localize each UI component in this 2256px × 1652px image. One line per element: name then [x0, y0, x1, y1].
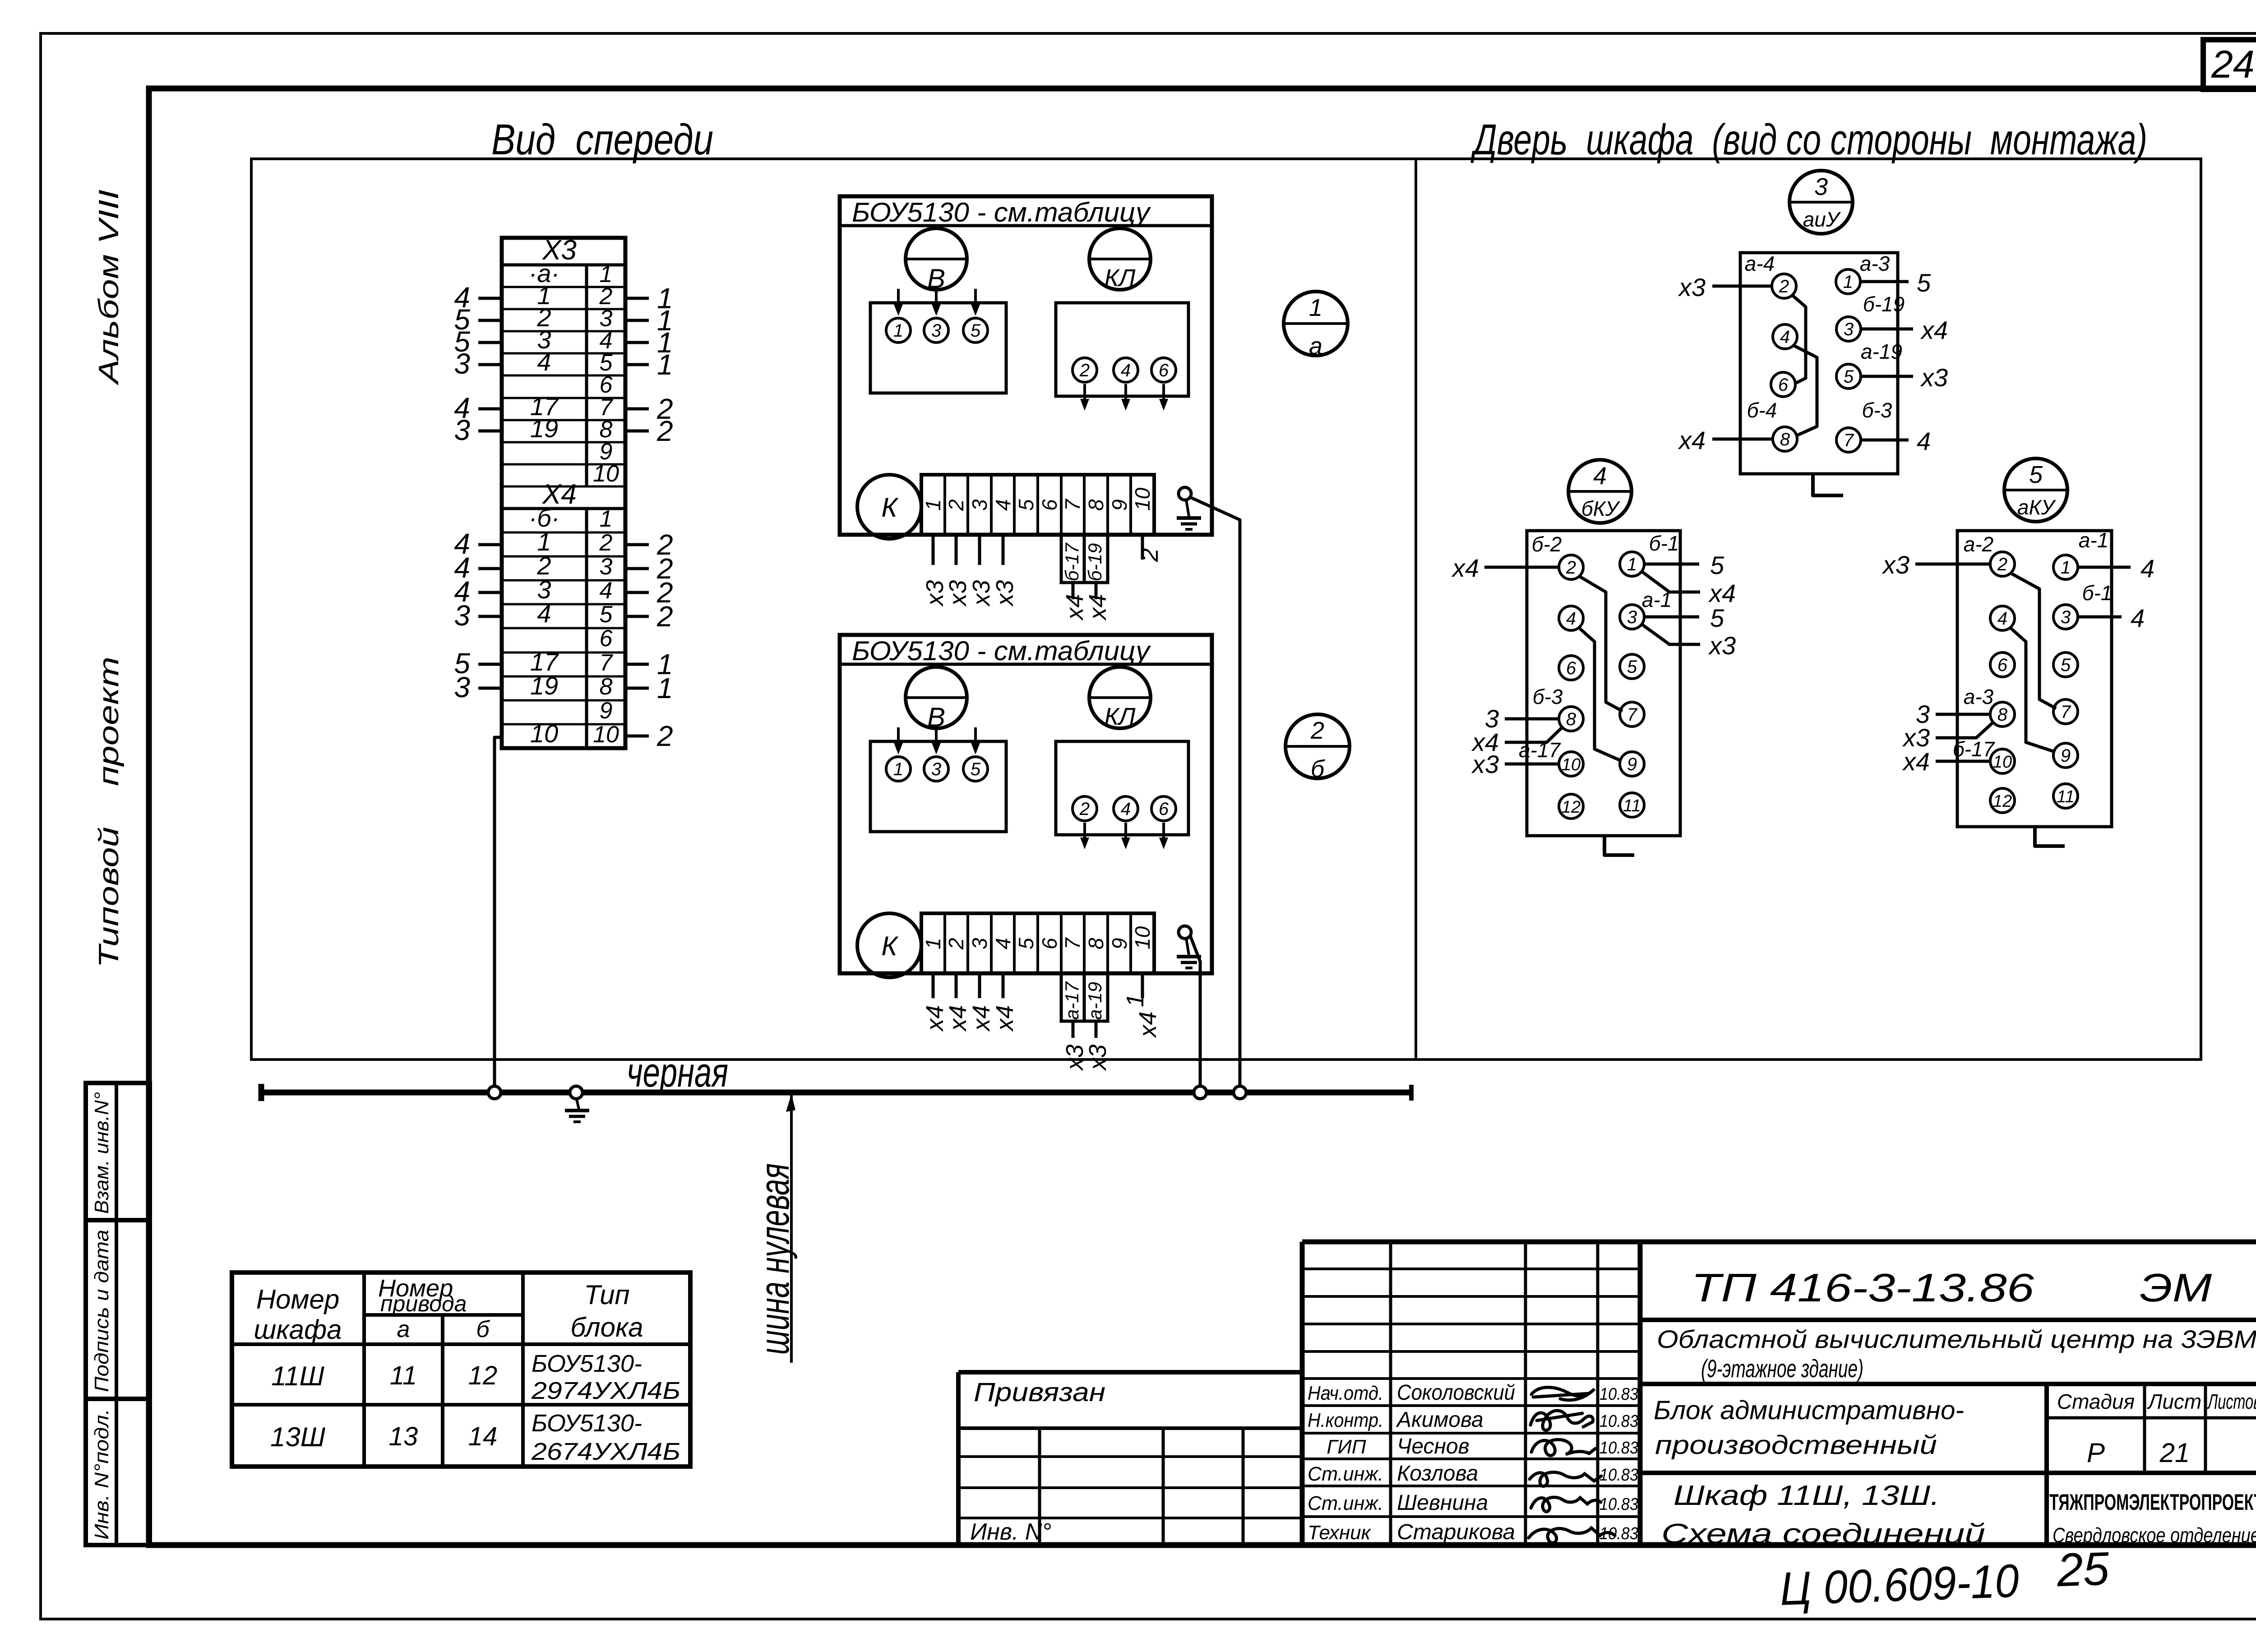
page number box 24 — [2203, 40, 2256, 89]
svg-text:1: 1 — [657, 672, 673, 704]
arrow out of box — [1159, 823, 1168, 849]
wire lead X3 row 2 to 5 — [454, 303, 502, 336]
svg-text:Р: Р — [2087, 1438, 2105, 1468]
svg-text:КЛ: КЛ — [1105, 264, 1136, 292]
svg-text:9: 9 — [1627, 754, 1637, 774]
sidebar box: Подпись и дата — [86, 1220, 150, 1399]
svg-text:19: 19 — [530, 414, 558, 443]
svg-text:24: 24 — [2211, 43, 2255, 86]
cabinet/drive/type table — [232, 1273, 690, 1467]
node designator 2/б — [1285, 714, 1350, 782]
signature row Ст.инж. Козлова — [1308, 1462, 1638, 1486]
arrow out of box — [1121, 823, 1130, 849]
pin 5 — [963, 757, 988, 781]
svg-text:21: 21 — [2159, 1438, 2190, 1468]
svg-text:2: 2 — [944, 938, 968, 950]
svg-text:Нач.отд.: Нач.отд. — [1308, 1382, 1383, 1404]
svg-text:3: 3 — [931, 321, 941, 341]
wire block3 pin 3 to х4 — [1861, 316, 1948, 344]
svg-text:5: 5 — [1014, 938, 1038, 949]
pin 2 — [1073, 796, 1097, 821]
svg-text:5: 5 — [971, 321, 981, 341]
svg-text:10: 10 — [1562, 755, 1581, 774]
block4 pin 6 — [1559, 656, 1583, 680]
svg-text:бКУ: бКУ — [1581, 497, 1621, 520]
node designator 1/а — [1284, 292, 1348, 360]
bus label черная — [627, 1050, 728, 1096]
wire block3 pin 7 to 4 — [1861, 427, 1931, 455]
svg-text:б-19: б-19 — [1084, 543, 1105, 581]
svg-text:блока: блока — [570, 1312, 643, 1342]
lamp terminal box 1-3-5 — [870, 741, 1006, 832]
wire lead X4 pin 7 to circuit 1 — [625, 648, 673, 680]
svg-text:б-17: б-17 — [1953, 737, 1995, 761]
block4 pin 7 — [1620, 702, 1644, 727]
stage/sheet header — [2057, 1390, 2256, 1413]
arrow into box — [894, 727, 903, 754]
block3 pin 7 — [1836, 428, 1861, 452]
svg-text:10: 10 — [593, 722, 619, 748]
wire terminal 1 to х4 — [921, 973, 948, 1032]
block3 pin 2 — [1772, 274, 1796, 298]
svg-text:4: 4 — [1917, 427, 1931, 455]
block3 pin 4 — [1773, 324, 1797, 349]
svg-text:2: 2 — [1566, 558, 1576, 578]
terminal strip 1..10 — [921, 475, 1154, 535]
object name Блок административно-производственный — [1654, 1396, 1964, 1460]
organisation ТЯЖПРОМЭЛЕКТРОПРОЕКТ — [2049, 1490, 2256, 1547]
indicator КЛ — [1089, 667, 1151, 730]
terminal 8 extension а-19 — [1084, 973, 1108, 1021]
svg-text:(9-этажное здание): (9-этажное здание) — [1701, 1354, 1863, 1383]
wire lead X3 pin 4 to circuit 1 — [625, 326, 673, 359]
arrow into box — [971, 289, 980, 316]
svg-text:шкафа: шкафа — [254, 1314, 342, 1345]
svg-text:а-3: а-3 — [1860, 252, 1890, 275]
svg-text:б-17: б-17 — [1061, 542, 1082, 581]
svg-text:1: 1 — [1627, 555, 1637, 574]
svg-text:Н.контр.: Н.контр. — [1308, 1409, 1383, 1431]
svg-text:2: 2 — [1997, 555, 2007, 574]
wire lead X4 pin 3 to circuit 2 — [625, 552, 673, 585]
label б-19 — [1863, 292, 1905, 316]
svg-text:б: б — [476, 1316, 490, 1342]
svg-text:7: 7 — [1844, 430, 1854, 450]
pin 3 — [924, 757, 948, 781]
wire terminal 4 to х4 — [991, 973, 1018, 1032]
svg-text:Номер: Номер — [256, 1284, 340, 1314]
block5 pin 1 — [2053, 555, 2078, 579]
svg-text:3: 3 — [454, 599, 470, 632]
label а-3 — [1860, 252, 1890, 275]
block3 pin 8 — [1773, 427, 1797, 451]
svg-text:Схема соединений: Схема соединений — [1661, 1518, 1985, 1550]
svg-text:10: 10 — [593, 461, 619, 487]
block4 chassis tail — [1604, 836, 1634, 855]
svg-text:7: 7 — [1061, 499, 1084, 511]
svg-text:Стадия: Стадия — [2057, 1390, 2135, 1413]
label б-3 — [1862, 398, 1892, 422]
svg-text:2674УХЛ4Б: 2674УХЛ4Б — [531, 1438, 680, 1465]
svg-text:13: 13 — [389, 1422, 418, 1451]
arrow out of box — [1080, 823, 1089, 849]
terminal 8 extension б-19 — [1084, 535, 1108, 583]
svg-text:Лист: Лист — [2147, 1390, 2201, 1413]
svg-text:6: 6 — [1159, 361, 1169, 380]
margin caption: Альбом VIII — [93, 190, 125, 386]
svg-text:5: 5 — [600, 602, 613, 628]
svg-text:2: 2 — [944, 499, 968, 511]
svg-text:а-3: а-3 — [1964, 685, 1994, 708]
wire 3 to block5 pin 8 — [1916, 700, 1990, 728]
wire lead X3 pin 3 to circuit 1 — [625, 304, 673, 337]
svg-text:11Ш: 11Ш — [271, 1361, 324, 1391]
svg-text:Инв. N°подл.: Инв. N°подл. — [91, 1409, 113, 1540]
svg-text:3: 3 — [454, 414, 470, 446]
svg-text:БОУ5130 - см.таблицу: БОУ5130 - см.таблицу — [852, 197, 1151, 227]
svg-text:Техник: Техник — [1308, 1522, 1372, 1544]
svg-text:х3: х3 — [968, 580, 995, 607]
wire terminal 2 to х4 — [944, 973, 971, 1032]
svg-text:х3: х3 — [1678, 273, 1706, 301]
label а-17 — [1519, 738, 1561, 762]
wire lead X3 row to 4 — [454, 281, 502, 314]
svg-text:12: 12 — [1562, 798, 1581, 817]
block5 pin 12 — [1990, 788, 2015, 813]
svg-text:25: 25 — [2056, 1542, 2111, 1596]
block4 pin 10 — [1559, 752, 1583, 776]
project name — [1657, 1325, 2256, 1383]
svg-text:х3: х3 — [1708, 631, 1736, 660]
bus ground symbol — [565, 1099, 589, 1122]
inventory handwritten mark — [1779, 1542, 2111, 1615]
unit title БОУ5130 - см.таблицу — [852, 636, 1151, 666]
svg-text:х4: х4 — [1920, 316, 1948, 344]
pin 1 — [886, 757, 911, 781]
svg-text:Акимова: Акимова — [1396, 1408, 1484, 1432]
svg-text:1: 1 — [2061, 558, 2071, 578]
svg-text:10: 10 — [1131, 487, 1154, 511]
svg-text:а-17: а-17 — [1061, 981, 1082, 1020]
svg-text:8: 8 — [1084, 499, 1108, 511]
svg-text:3: 3 — [454, 347, 470, 380]
svg-text:б: б — [1311, 755, 1325, 782]
wire lead X4 row 3 to 4 — [454, 575, 502, 608]
svg-text:Вид спереди: Вид спереди — [491, 116, 713, 164]
svg-text:а: а — [397, 1316, 410, 1342]
label а-1 — [2079, 528, 2108, 552]
wire ground terminal to zero bus — [1190, 936, 1200, 1090]
svg-text:4: 4 — [1566, 609, 1576, 629]
block5 pin 10 — [1990, 749, 2015, 773]
svg-text:2: 2 — [656, 600, 673, 633]
svg-text:Листов: Листов — [2207, 1390, 2256, 1413]
svg-text:БОУ5130-: БОУ5130- — [532, 1350, 642, 1377]
svg-text:Козлова: Козлова — [1397, 1462, 1478, 1485]
arrow out of box — [1159, 384, 1168, 411]
svg-text:4: 4 — [2140, 554, 2154, 583]
wire block3 pin 5 to х3 — [1861, 363, 1948, 392]
wire block4 pin 3 to 5 — [1644, 604, 1724, 632]
ground symbol — [1177, 939, 1201, 968]
svg-text:6: 6 — [1159, 799, 1169, 819]
svg-text:4: 4 — [1593, 463, 1607, 490]
svg-text:а-19: а-19 — [1861, 340, 1902, 363]
svg-text:х4: х4 — [991, 1005, 1018, 1032]
label а-3 — [1964, 685, 1994, 708]
connector block 4 (бКУ) outline — [1527, 531, 1680, 836]
label б-3 — [1533, 685, 1563, 708]
svg-text:привода: привода — [380, 1291, 467, 1316]
svg-text:19: 19 — [530, 671, 558, 700]
svg-text:х3: х3 — [1882, 551, 1909, 579]
svg-text:Областной вычислительный центр: Областной вычислительный центр на 3ЭВМ — [1657, 1325, 2256, 1353]
wire block3 pin 1 to 5 — [1860, 268, 1931, 297]
wire terminal 10 — [1136, 535, 1163, 562]
wire lead X4 row 19 to 3 — [454, 671, 502, 703]
block4 pin 1 — [1620, 552, 1644, 576]
svg-text:а-4: а-4 — [1745, 252, 1775, 275]
svg-text:3: 3 — [1844, 319, 1854, 339]
signature row Н.контр. Акимова — [1308, 1408, 1638, 1432]
svg-text:х4: х4 — [1902, 747, 1930, 776]
svg-text:5: 5 — [2061, 655, 2071, 675]
sidebar box: Инв. № подл. — [86, 1399, 150, 1545]
wire terminal 3 to х3 — [968, 535, 995, 607]
svg-text:4: 4 — [2131, 604, 2145, 632]
svg-text:8: 8 — [600, 674, 613, 700]
pin 6 — [1151, 358, 1176, 382]
svg-text:6: 6 — [1997, 655, 2008, 675]
svg-text:2: 2 — [656, 415, 673, 447]
svg-text:2: 2 — [599, 530, 613, 556]
svg-text:5: 5 — [1844, 367, 1854, 387]
wire terminal 3 to х4 — [968, 973, 995, 1032]
svg-text:аКУ: аКУ — [2017, 495, 2057, 519]
signature row Нач.отд. Соколовский — [1308, 1381, 1638, 1405]
wire X4 row 10 to zero bus — [495, 737, 502, 1090]
svg-text:7: 7 — [1627, 705, 1638, 725]
pin 4 — [1114, 358, 1138, 382]
wire х3 to block4 pin 10 — [1471, 750, 1559, 778]
wire lead X3 row 7 to 4 — [454, 392, 502, 424]
block3 chassis tail — [1813, 474, 1843, 495]
svg-text:х3: х3 — [1471, 750, 1499, 778]
indicator V (В) — [906, 667, 967, 732]
wire terminal 4 to х3 — [991, 535, 1018, 607]
arrow into box — [971, 727, 980, 754]
wire lead X4 pin 8 to circuit 1 — [625, 672, 673, 704]
svg-text:Старикова: Старикова — [1397, 1520, 1515, 1544]
wire lead X3 row to 5 — [454, 325, 502, 358]
svg-text:4: 4 — [600, 578, 613, 604]
svg-text:5: 5 — [1710, 604, 1724, 632]
svg-text:х4: х4 — [944, 1005, 971, 1032]
wire block5 pin 1 to 4 — [2078, 554, 2154, 583]
svg-text:9: 9 — [1108, 499, 1131, 511]
svg-text:Привязан: Привязан — [974, 1378, 1105, 1407]
svg-text:х4: х4 — [968, 1005, 995, 1032]
view title: Вид спереди — [491, 116, 713, 164]
wire block4 pin 1 to х4 — [1641, 571, 1736, 607]
wire ground terminal to zero bus — [1190, 497, 1240, 1090]
svg-text:Взам. инв.N°: Взам. инв.N° — [91, 1092, 113, 1214]
svg-text:10.83: 10.83 — [1600, 1412, 1638, 1431]
signature row Ст.инж. Шевнина — [1308, 1491, 1638, 1515]
ground terminal circle — [1179, 487, 1191, 500]
view title: Дверь шкафа (вид со стороны монтажа) — [1470, 116, 2147, 164]
svg-text:Типовой проект: Типовой проект — [93, 657, 125, 968]
block5 pin 6 — [1990, 652, 2015, 677]
sheet name Шкаф 11Ш,13Ш Схема соединений — [1661, 1480, 1985, 1550]
svg-text:Тип: Тип — [584, 1280, 629, 1310]
svg-text:4: 4 — [537, 599, 551, 628]
svg-text:4: 4 — [1121, 361, 1131, 380]
bus junction (ground) — [570, 1086, 582, 1099]
svg-text:Ст.инж.: Ст.инж. — [1308, 1463, 1383, 1485]
svg-text:К: К — [881, 492, 899, 523]
block4 pin 2 — [1559, 555, 1583, 579]
wire х3 to block5 pin 8 — [1902, 723, 1992, 752]
svg-text:ЭМ: ЭМ — [2140, 1265, 2212, 1310]
svg-text:К: К — [881, 931, 899, 961]
svg-text:12: 12 — [468, 1361, 498, 1390]
svg-text:11: 11 — [1623, 796, 1641, 815]
svg-text:б-3: б-3 — [1533, 685, 1563, 708]
title block grid — [958, 1242, 2256, 1545]
svg-text:х3: х3 — [1084, 1044, 1111, 1071]
svg-text:1: 1 — [1309, 294, 1322, 321]
node designator 3/аиУ — [1789, 171, 1853, 234]
svg-text:6: 6 — [600, 625, 613, 652]
sidebar box: Взам. инв. № — [86, 1083, 150, 1220]
svg-text:х3: х3 — [944, 580, 971, 607]
bus junction (unit 1 wire) — [1234, 1086, 1246, 1099]
unit title БОУ5130 - см.таблицу — [852, 197, 1151, 227]
svg-text:х3: х3 — [1920, 363, 1948, 392]
wire lead X4 row 17 to 5 — [454, 647, 502, 680]
unit БОУ5130 outline — [840, 196, 1212, 535]
svg-text:аиУ: аиУ — [1803, 208, 1841, 231]
svg-text:производственный: производственный — [1655, 1430, 1937, 1460]
svg-text:10.83: 10.83 — [1600, 1495, 1638, 1514]
svg-text:1: 1 — [921, 499, 945, 511]
wire х4 to block3 pin 8 — [1678, 426, 1773, 454]
svg-text:14: 14 — [468, 1422, 498, 1451]
svg-text:1: 1 — [893, 321, 903, 341]
indicator К — [857, 475, 921, 539]
svg-text:10: 10 — [530, 719, 558, 748]
wire х4 to block5 pin 10 — [1902, 747, 1990, 776]
svg-text:3: 3 — [454, 671, 470, 703]
bus junction (unit 2 wire) — [1194, 1086, 1207, 1099]
connector block 5 (аКУ) outline — [1957, 531, 2112, 827]
svg-text:4: 4 — [1121, 799, 1131, 819]
svg-text:6: 6 — [1038, 938, 1061, 949]
wire lead X4 pin 5 to circuit 2 — [625, 600, 673, 633]
zero bus leader line шина нулевая — [752, 1094, 798, 1363]
unit БОУ5130 outline — [840, 635, 1212, 973]
svg-text:10.83: 10.83 — [1600, 1466, 1638, 1485]
block4 pin 9 — [1620, 752, 1644, 776]
svg-text:Инв. N°: Инв. N° — [970, 1519, 1051, 1545]
wire х4 to block4 pin 2 — [1451, 554, 1559, 582]
svg-text:6: 6 — [1038, 499, 1061, 511]
svg-text:черная: черная — [627, 1050, 728, 1096]
jumper block5 pin4-pin9 — [2010, 627, 2055, 752]
svg-text:3: 3 — [968, 499, 991, 511]
arrow into box — [932, 727, 941, 754]
svg-text:7: 7 — [600, 650, 614, 676]
block4 pin 4 — [1559, 606, 1583, 630]
svg-text:3: 3 — [968, 938, 991, 949]
svg-text:10: 10 — [1131, 926, 1154, 949]
svg-text:Шевнина: Шевнина — [1397, 1491, 1488, 1515]
jumper block3 pin4-pin8 — [1793, 345, 1817, 436]
wire lead X4 row 1 to 4 — [454, 528, 502, 560]
svg-text:х4: х4 — [1134, 1011, 1161, 1038]
svg-text:1: 1 — [921, 938, 945, 949]
svg-text:2: 2 — [656, 720, 673, 752]
svg-text:5: 5 — [1014, 499, 1038, 511]
pin 1 — [886, 318, 911, 342]
svg-text:б-1: б-1 — [1649, 532, 1679, 555]
wire lead X3 pin 8 to circuit 2 — [625, 415, 673, 447]
svg-text:4: 4 — [991, 938, 1015, 949]
svg-text:2: 2 — [1310, 717, 1324, 744]
indicator V (В) — [906, 228, 967, 294]
connector X3 terminal table — [502, 235, 625, 748]
svg-text:8: 8 — [1780, 430, 1790, 449]
block5 pin 2 — [1990, 552, 2015, 576]
cabinet outline (front view + door) — [251, 159, 2201, 1060]
svg-text:12: 12 — [1993, 792, 2012, 811]
block3 pin 1 — [1836, 269, 1860, 294]
svg-text:1: 1 — [600, 506, 613, 532]
label а-1 — [1642, 588, 1672, 611]
svg-text:1: 1 — [893, 759, 903, 779]
svg-text:х4: х4 — [1708, 579, 1736, 607]
svg-text:б-1: б-1 — [2082, 581, 2113, 605]
block3 pin 3 — [1836, 317, 1861, 341]
wire block5 pin 3 to 4 — [2078, 604, 2145, 632]
label б-4 — [1747, 398, 1777, 422]
svg-text:2: 2 — [1079, 799, 1090, 819]
wire lead X4 pin 10 to circuit 2 — [625, 720, 673, 752]
svg-text:5: 5 — [2029, 461, 2043, 488]
wire block4 pin 3 to х3 — [1641, 624, 1736, 660]
wire х4 to block4 pin 8 — [1471, 727, 1562, 756]
svg-text:Ц 00.609-10: Ц 00.609-10 — [1779, 1555, 2020, 1615]
wire lead X3 row 4 to 3 — [454, 347, 502, 380]
block5 pin 11 — [2053, 784, 2078, 808]
svg-text:9: 9 — [600, 698, 613, 724]
zero bus (черная) — [261, 1084, 1411, 1101]
signature row ГИП Чеснов — [1327, 1435, 1638, 1458]
pin 4 — [1114, 796, 1138, 821]
svg-text:4: 4 — [1780, 327, 1790, 347]
svg-text:Соколовский: Соколовский — [1397, 1381, 1515, 1405]
terminal strip 1..10 — [921, 913, 1154, 973]
svg-text:2974УХЛ4Б: 2974УХЛ4Б — [531, 1377, 680, 1404]
label б-1 — [2082, 581, 2113, 605]
svg-text:8: 8 — [1997, 705, 2008, 725]
svg-text:а-2: а-2 — [1964, 532, 1993, 556]
arrow into box — [932, 289, 941, 316]
svg-text:2: 2 — [1779, 277, 1789, 296]
label а-19 — [1861, 340, 1902, 363]
svg-text:9: 9 — [1108, 938, 1131, 949]
